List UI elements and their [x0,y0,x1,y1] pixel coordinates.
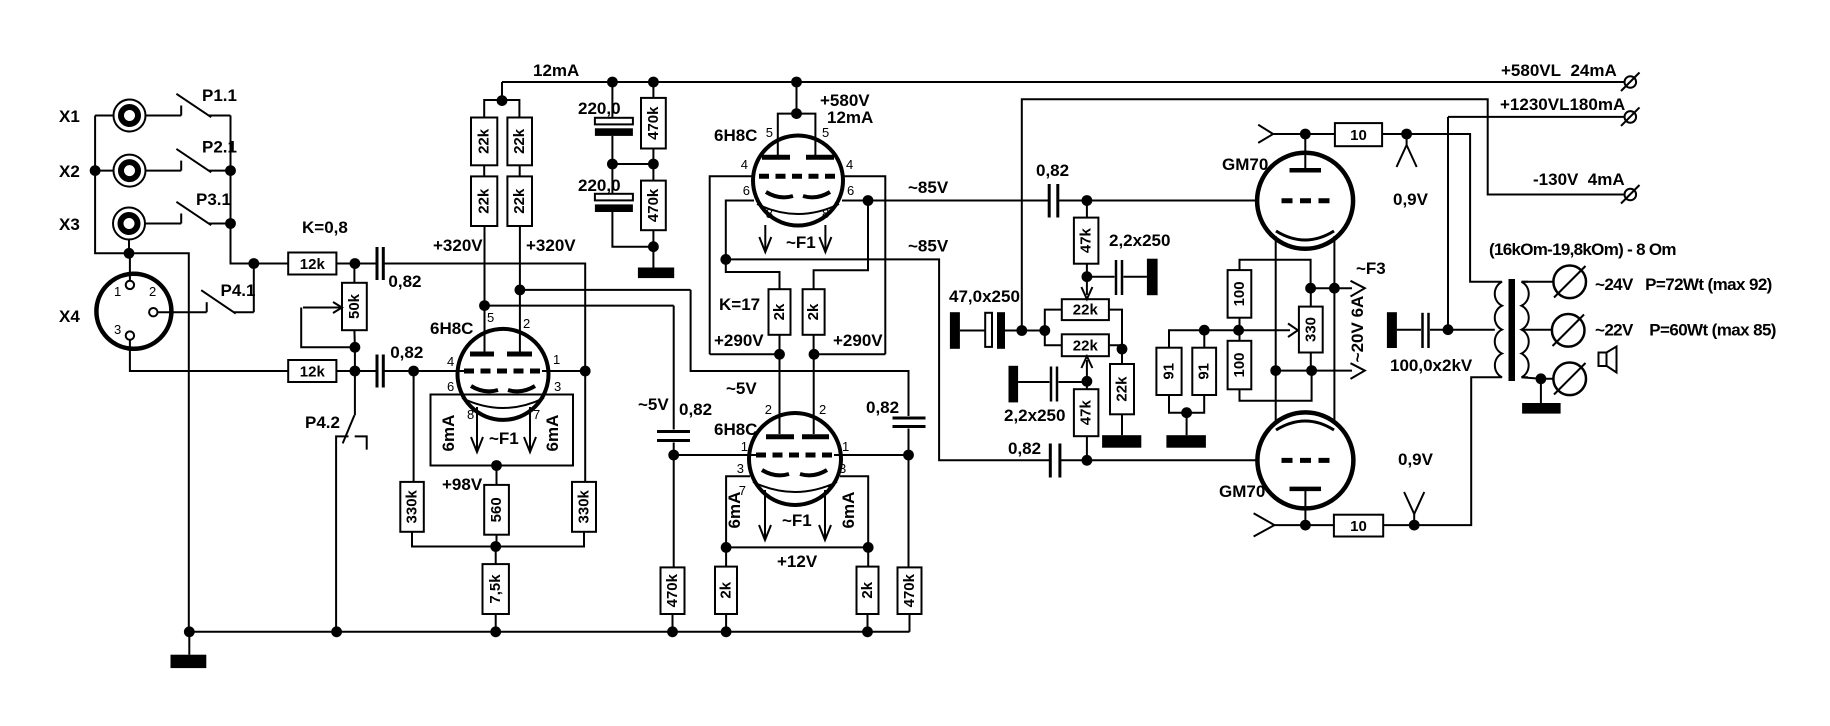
capacitor 0,82 GM70 upper [1049,184,1058,218]
arrow marker GM70 upper anode [1258,125,1273,143]
wire 10 lower to transformer [1383,377,1495,525]
svg-text:220,0: 220,0 [578,99,621,118]
connector X1 RCA jack [114,100,146,132]
junction tube2 left cathode node [720,254,731,265]
tube2 filament arrow left [759,225,771,252]
junction 50k bottom node [350,342,361,353]
wire tube1 right grid to 330k [584,371,586,482]
GM70 upper anode bar [1290,168,1322,173]
svg-text:+320V: +320V [433,236,483,255]
tube3 filament arrow right [819,490,831,540]
svg-text:2: 2 [819,402,826,417]
svg-text:5: 5 [766,125,773,140]
wire tube1 left grid [414,370,464,372]
svg-text:5: 5 [822,125,829,140]
ground bar 91s [1166,435,1206,448]
switch P2.1 [176,149,230,172]
svg-text:6H8C: 6H8C [714,126,757,145]
svg-text:1: 1 [842,439,849,454]
junction PSU bottom [648,241,659,252]
junction GM70 upper anode node [1300,129,1311,140]
capacitor 0,82 tube3 right coupling [893,418,926,455]
junction lower grid node [350,366,361,377]
resistor 2k tube2 left [769,289,791,335]
resistor 2k tube3 right [857,547,879,631]
terminal +580VL [1621,73,1640,92]
tube3 filament arrow left [759,490,771,540]
wire bias to 22k pot lower [1045,331,1062,346]
resistor 22k left top [471,118,497,166]
tube1 filament arc [462,398,544,408]
resistor 91 right [1192,348,1216,395]
wire bus to ground symbol [188,632,190,655]
wire rail to tube2 anodes [796,82,798,114]
switch P4.2 [336,415,367,632]
svg-text:6H8C: 6H8C [714,420,757,439]
tube GM70 lower envelope [1257,412,1353,508]
wire filament leg left [1275,236,1277,424]
svg-text:2k: 2k [771,303,788,320]
wire main ground bus [189,631,909,633]
wire right input bus [231,116,254,264]
junction pots right node [1117,344,1128,355]
svg-text:470k: 470k [645,106,662,140]
svg-text:~F1: ~F1 [782,511,812,530]
wire tube2 anode split bar [778,114,816,155]
svg-text:3: 3 [554,379,561,394]
tube2 cathode arcs [766,192,830,197]
svg-text:~5V: ~5V [638,395,669,414]
svg-text:~F1: ~F1 [489,429,519,448]
wire tube3 left grid [674,454,756,456]
ground symbol main [171,655,207,668]
junction tube1 cathode node [491,460,502,471]
svg-text:7: 7 [533,407,540,422]
svg-text:+1230VL180mA: +1230VL180mA [1500,95,1625,114]
tube1 cathode arcs [471,386,535,391]
resistor 22k right top [507,118,532,166]
svg-text:P2.1: P2.1 [202,138,237,157]
wire tube2 +290V rail left [710,353,780,355]
svg-text:470k: 470k [664,573,681,607]
resistor 12k upper [288,253,336,275]
transformer primary winding [1495,282,1502,377]
svg-text:2k: 2k [718,581,735,598]
capacitor 0,82 lower input [355,355,383,388]
svg-text:~22V P=60Wt (max 85): ~22V P=60Wt (max 85) [1595,321,1776,340]
wire X1 jack to left bus [95,115,113,117]
wire PSU bottom to ground [652,247,654,268]
junction secondary common [1536,373,1547,384]
wire upper channel to tube1 right grid [383,264,585,372]
resistor 12k lower [288,360,336,382]
svg-text:2k: 2k [805,303,822,320]
wire tube2 right cathode [842,200,868,202]
junction tube3 left grid node [668,450,679,461]
wire X1 jack to switch P1.1 [146,115,182,117]
wire input node to X4 pin1 [129,253,131,280]
wire between 22k rows right [519,165,521,176]
svg-text:10: 10 [1350,127,1367,144]
junction tube1 right anode node [515,285,526,296]
svg-text:0,9V: 0,9V [1393,190,1429,209]
GM70 lower grid row [1282,458,1331,463]
junction 47k upper bottom [1082,271,1093,282]
svg-text:0,82: 0,82 [390,343,423,362]
wire 10 upper to transformer [1382,134,1495,282]
junction input common node [124,248,135,259]
svg-text:91: 91 [1161,363,1178,380]
svg-text:12k: 12k [300,256,326,273]
wire X4 pin2 to switch P4.1 [158,311,207,313]
svg-text:P3.1: P3.1 [196,190,231,209]
wire GM70 upper anode lead [1304,134,1306,170]
svg-text:0,82: 0,82 [388,272,421,291]
capacitor 220,0 upper [595,82,633,164]
arrow F3 upper [1351,281,1365,297]
wire filament leg right [1333,236,1335,424]
svg-text:~5V: ~5V [726,379,757,398]
svg-text:12mA: 12mA [533,61,579,80]
wire PSU mid node [612,163,653,165]
wire ~85V lower output [726,259,1050,460]
svg-text:GM70: GM70 [1219,482,1265,501]
wire secondary top tap [1522,281,1554,283]
svg-text:47k: 47k [1078,400,1095,426]
junction 91 right top [1199,325,1210,336]
connector X4 XLR [96,274,171,349]
tube1 filament arrow left [471,407,483,452]
svg-text:P1.1: P1.1 [202,86,237,105]
svg-text:8: 8 [467,407,474,422]
junction tube3 right cathode node [863,542,874,553]
capacitor 47,0x250 [950,312,1022,349]
junction bus at P4.2 [331,626,342,637]
tube2 anode plates [762,155,834,160]
svg-text:~F3: ~F3 [1356,259,1386,278]
wire 22k split bar [484,100,519,118]
wire X2 jack to switch P2.1 [146,170,182,172]
svg-text:8: 8 [766,206,773,221]
wire 50k node to lower grid node [354,347,356,371]
junction GM70 upper grid node [1082,195,1093,206]
triode tube3 6H8C envelope [749,413,841,505]
wire 560 to mini bus [496,535,498,547]
probe symbol 0,9V lower [1404,492,1424,525]
junction F3 upper at 330 [1305,283,1316,294]
wire tube1 right grid [542,370,585,372]
resistor 330k left [400,482,424,532]
junction bus at 470k left [667,626,678,637]
wire anode node to 10 lower [1274,524,1334,526]
wire cap to tube1 left grid node [383,370,413,372]
wire 2k left to rail [779,335,781,355]
svg-text:12k: 12k [300,364,326,381]
junction tube1 left anode node [479,300,490,311]
GM70 upper grid row [1282,198,1331,203]
junction tube3 left cathode node [721,542,732,553]
svg-text:6mA: 6mA [725,492,744,529]
svg-text:7,5k: 7,5k [487,574,504,604]
resistor 560 [484,485,509,535]
wire 91s top bus [1169,330,1290,348]
svg-text:4: 4 [741,157,748,172]
wire node to 12k upper [254,263,288,265]
junction 10 lower output [1409,520,1420,531]
svg-text:1: 1 [114,284,121,299]
wire X4 pin3 to lower 12k [130,340,288,371]
svg-text:22k: 22k [511,128,528,154]
junction tube2 right cathode node [863,195,874,206]
svg-text:2: 2 [765,402,772,417]
junction F3 lower at 330 [1306,365,1317,376]
wire 2k right to rail [813,335,815,355]
svg-text:100: 100 [1231,352,1248,377]
junction node to 12k [248,258,259,269]
resistor 22k left bottom [471,176,497,226]
tube3 cathode arcs [762,470,827,475]
wire tube2 +290V rail right [814,353,885,355]
svg-text:2,2x250: 2,2x250 [1004,406,1065,425]
ground bar transformer [1522,403,1561,414]
wiper arrow 22k lower [1081,356,1092,381]
wire 100 lower bottom [1240,371,1312,401]
svg-text:0,82: 0,82 [866,398,899,417]
wire 7,5k to ground bus [495,614,497,632]
wire X3 jack to switch P3.1 [145,223,181,225]
svg-text:0,9V: 0,9V [1398,450,1434,469]
wire 100 mid links [1239,318,1241,341]
svg-text:22k: 22k [476,188,493,214]
junction rail at 470k [648,77,659,88]
svg-text:~20V 6A: ~20V 6A [1348,296,1367,363]
svg-text:4: 4 [447,354,454,369]
svg-text:~F1: ~F1 [786,233,816,252]
svg-text:5: 5 [487,310,494,325]
wire top rail corner to split [501,82,503,101]
capacitor 0,82 upper input [355,247,383,280]
switch P1.1 [176,94,230,117]
svg-text:4: 4 [846,157,853,172]
junction F3 lower at filament leg [1270,365,1281,376]
svg-text:220,0: 220,0 [578,176,621,195]
wire -130V feed [1022,99,1626,330]
wire tube3 right cathode [840,476,868,547]
wire F3 upper [1311,287,1352,289]
resistor 2k tube3 left [715,547,737,631]
tube3 anode plates [766,434,829,439]
junction 10 upper output [1401,129,1412,140]
wire lower node to P4.2 [354,371,356,415]
potentiometer 330 [1299,288,1323,370]
svg-text:100,0x2kV: 100,0x2kV [1390,356,1473,375]
svg-text:+98V: +98V [442,475,483,494]
capacitor 0,82 GM70 lower [1050,444,1060,478]
svg-text:P4.2: P4.2 [305,413,340,432]
svg-text:6: 6 [847,183,854,198]
wire GM70 lower anode lead [1304,489,1306,525]
wire F3 lower [1276,370,1352,372]
junction PSU mid at cap [607,159,618,170]
junction bus at 2k right [862,626,873,637]
svg-text:6H8C: 6H8C [430,319,473,338]
arrow marker GM70 lower anode [1254,513,1275,536]
tube2 filament arrow right [819,225,831,252]
wiper arrow 22k upper [1081,277,1092,300]
svg-text:0,82: 0,82 [1036,161,1069,180]
junction tube1 left grid node [408,366,419,377]
junction rail at tube2 [791,77,802,88]
resistor 7,5k [483,564,509,614]
svg-text:+290V: +290V [714,331,764,350]
wire cathode mini bus [412,532,584,547]
junction right bus at P2.1 [225,165,236,176]
wire GM70 lower grid [1060,459,1258,461]
speaker symbol [1599,347,1617,373]
svg-text:K=17: K=17 [719,295,760,314]
svg-text:+320V: +320V [526,236,576,255]
wire +580V top rail [502,81,1626,83]
svg-text:91: 91 [1196,363,1213,380]
junction bus at 7,5k [490,626,501,637]
svg-text:47,0x250: 47,0x250 [949,287,1020,306]
wire cathode node to 560 [496,466,498,485]
svg-text:330k: 330k [576,489,593,523]
potentiometer 22k upper [1062,299,1109,320]
svg-text:6: 6 [743,183,750,198]
svg-text:~24V P=72Wt (max 92): ~24V P=72Wt (max 92) [1595,275,1772,294]
junction on left bus at X2 [90,165,101,176]
svg-text:1: 1 [741,439,748,454]
junction bus at 2k left [721,626,732,637]
junction 100s mid [1233,325,1244,336]
wire tube2 right grid loop [843,176,885,354]
GM70 lower anode bar [1290,487,1322,492]
wire ~85V upper output [868,200,1049,202]
terminal speaker out [1553,363,1586,396]
tube3 filament arc [753,482,837,492]
junction right bus at P3.1 [225,218,236,229]
arrow F3 lower [1351,363,1365,379]
svg-text:+290V: +290V [833,331,883,350]
wire tube2 left grid loop [710,176,753,354]
wire 91s bottom [1169,395,1204,435]
wire tube1 left grid to 330k [413,371,415,482]
junction 47k lower top [1082,376,1093,387]
resistor 100 lower [1228,341,1252,390]
resistor 470k PSU upper [641,82,666,164]
resistor 470k PSU lower [641,164,666,247]
svg-text:X3: X3 [59,215,80,234]
svg-text:6mA: 6mA [839,492,858,529]
junction rail at 2k left [774,349,785,360]
svg-text:~85V: ~85V [908,178,949,197]
svg-text:12mA: 12mA [827,108,873,127]
connector X3 RCA jack [113,208,145,240]
wire tube1 left anode lead [484,226,486,352]
junction tube1 right grid node [580,366,591,377]
switch P3.1 [176,202,230,225]
svg-text:2k: 2k [859,581,876,598]
terminal -130V [1621,185,1640,204]
wire +1230VL rail [1448,116,1626,118]
switch P4.1 [201,264,254,314]
connector X2 RCA jack [114,155,146,187]
wire +12V bus [726,546,868,548]
tube2 filament arc [757,204,839,214]
svg-text:2: 2 [149,284,156,299]
svg-text:22k: 22k [1114,376,1131,402]
capacitor 2,2x250 lower [1009,366,1087,403]
tube3 grid row [756,453,834,458]
terminal ~22V [1552,314,1585,347]
wire input node to ground drop [129,253,189,632]
tube2 grid row [759,174,837,179]
junction PSU mid at 470k [648,159,659,170]
junction GM70 lower anode node [1300,520,1311,531]
wire tube3 left cathode [726,476,750,547]
wire tube3 right grid [834,454,909,456]
probe symbol 0,9V upper [1397,134,1417,167]
resistor 100 upper [1228,270,1252,318]
wire secondary mid tap [1522,329,1553,331]
resistor 47k lower [1074,381,1099,460]
wire tube1 left anode to coupling [485,305,674,307]
svg-text:+580VL 24mA: +580VL 24mA [1501,61,1617,80]
junction 91s bottom [1181,407,1192,418]
svg-text:470k: 470k [901,573,918,607]
wire GM70 upper grid [1058,200,1258,202]
capacitor 0,82 tube3 left coupling [657,306,690,455]
svg-text:10: 10 [1350,518,1367,535]
tube1 grid row [464,369,542,374]
ground bar PSU [638,268,674,279]
junction tube3 right grid node [903,450,914,461]
svg-text:100: 100 [1231,281,1248,306]
svg-text:6mA: 6mA [543,415,562,452]
wire pots right to 22k bleed [1109,310,1122,364]
capacitor 2,2x250 upper [1087,259,1158,296]
wire right cathode to 2k right [814,201,868,290]
junction rail split [497,95,508,106]
svg-text:22k: 22k [1073,338,1099,355]
svg-text:22k: 22k [476,128,493,154]
wire mini bus to 7,5k [495,547,497,565]
terminal ~24V [1553,266,1586,299]
svg-text:P4.1: P4.1 [221,281,256,300]
resistor 47k upper [1074,201,1099,277]
svg-text:6: 6 [447,379,454,394]
svg-text:8: 8 [822,206,829,221]
wire between 22k rows left [483,165,485,176]
resistor 22k right bottom [507,176,532,226]
svg-text:X2: X2 [59,162,80,181]
svg-text:3: 3 [737,461,744,476]
tube1 cathode box [431,395,574,466]
wire X3 jack bottom to input node [128,239,130,253]
capacitor 220,0 lower [595,164,654,247]
potentiometer 22k lower [1062,334,1109,356]
resistor 2k tube2 right [803,289,825,335]
wire anode node to 10 [1273,133,1335,135]
junction bias node at pots [1039,325,1050,336]
transformer secondary winding [1522,282,1529,377]
svg-text:~85V: ~85V [908,237,949,256]
resistor 470k tube3 right [898,455,922,632]
wire tube1 right anode to coupling [520,289,691,291]
junction upper grid node [350,258,361,269]
junction rail at cap 220,0 [607,77,618,88]
